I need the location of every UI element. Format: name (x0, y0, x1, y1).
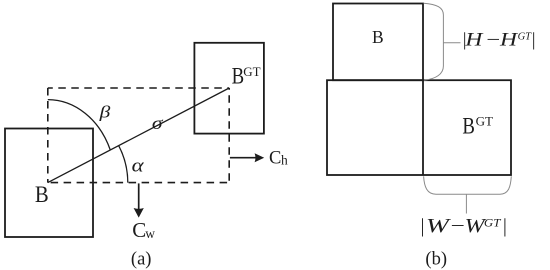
svg-text:B: B (462, 113, 475, 140)
svg-text:GT: GT (243, 64, 260, 79)
height brace (424, 3, 444, 80)
height brace tick (443, 42, 460, 44)
svg-text:B: B (35, 182, 49, 207)
divider line (b) (422, 80, 424, 175)
arrow Cw (138, 183, 140, 209)
svg-text:|W−WGT|: |W−WGT| (420, 216, 508, 237)
svg-text:B: B (232, 62, 245, 89)
arc alpha (119, 146, 128, 183)
svg-text:Cw: Cw (132, 218, 155, 242)
box B (b) (333, 4, 423, 81)
svg-text:β: β (99, 104, 111, 122)
svg-text:(a): (a) (131, 250, 152, 270)
width brace (424, 176, 512, 194)
arrow Ch (230, 157, 256, 159)
center line sigma (48, 88, 229, 183)
arc beta (48, 100, 111, 150)
dashed right edge (228, 88, 230, 183)
svg-text:Ch: Ch (269, 148, 288, 168)
dashed top edge (48, 87, 229, 89)
svg-text:α: α (132, 154, 145, 176)
dashed bottom edge (48, 182, 229, 184)
dashed left edge (47, 88, 49, 183)
svg-text:σ: σ (152, 114, 164, 134)
svg-text:GT: GT (476, 113, 493, 128)
width brace tick (465, 194, 467, 213)
svg-text:B: B (372, 27, 384, 47)
box BGT (194, 43, 264, 134)
box BGT (b) (327, 80, 511, 175)
box B (5, 129, 93, 238)
svg-text:|H−HGT|: |H−HGT| (462, 30, 536, 51)
svg-text:(b): (b) (425, 250, 447, 270)
